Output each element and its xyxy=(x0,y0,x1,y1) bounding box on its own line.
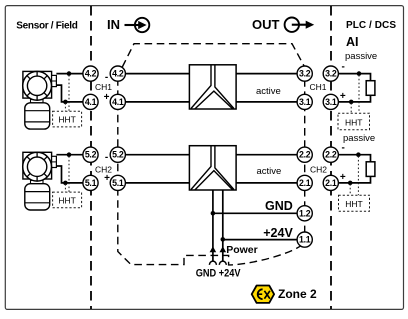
svg-text:CH1: CH1 xyxy=(310,82,327,92)
svg-text:Power: Power xyxy=(226,244,258,256)
Ex hexagon badge xyxy=(252,286,274,303)
svg-text:5.2: 5.2 xyxy=(85,150,97,160)
isolator block CH1 xyxy=(189,65,236,109)
wire 4.1 to isolator xyxy=(125,101,189,103)
HHT box CH1 left xyxy=(53,111,82,127)
wire 5.1 to isolator xyxy=(125,182,189,184)
IN arrow icon xyxy=(125,18,150,32)
svg-text:4.1: 4.1 xyxy=(85,97,97,107)
svg-text:CH1: CH1 xyxy=(95,82,112,92)
svg-text:AI: AI xyxy=(346,35,359,49)
HHT box CH2 left xyxy=(53,192,82,208)
svg-text:+: + xyxy=(340,91,346,102)
svg-text:+: + xyxy=(104,173,110,184)
svg-text:2.1: 2.1 xyxy=(299,178,311,188)
svg-text:HHT: HHT xyxy=(345,199,362,209)
HHT drop lines CH1 right (dotted) xyxy=(351,75,359,113)
field-side separator (dashed) xyxy=(90,6,92,309)
svg-text:3.1: 3.1 xyxy=(299,97,311,107)
svg-text:4.2: 4.2 xyxy=(112,69,124,79)
svg-text:-: - xyxy=(342,62,345,73)
terminal 3.2 outer xyxy=(323,66,338,81)
svg-text:+: + xyxy=(340,172,346,183)
terminal 1.1 xyxy=(297,232,312,247)
HHT drop lines CH2 right (dotted) xyxy=(350,156,358,195)
svg-text:5.1: 5.1 xyxy=(85,178,97,188)
svg-text:HHT: HHT xyxy=(58,115,75,125)
terminal 3.2 inner xyxy=(297,66,312,81)
wire +24V to 1.1 xyxy=(223,239,297,241)
wire 3.2 to load xyxy=(338,74,370,81)
wire T2 to 5.1 xyxy=(56,166,83,183)
wire 4.2 to isolator xyxy=(125,73,189,75)
power line +24V vertical xyxy=(222,190,224,261)
HHT box CH2 right xyxy=(339,195,370,211)
wire isolator to 2.2 xyxy=(236,154,297,156)
wire T1 to 4.2 xyxy=(56,73,83,75)
terminal 4.1 inner xyxy=(110,94,125,109)
terminal 2.2 inner xyxy=(297,147,312,162)
junction on 4.2 wire xyxy=(67,71,72,76)
terminal 3.1 inner xyxy=(297,94,312,109)
svg-text:HHT: HHT xyxy=(58,195,75,205)
svg-text:2.1: 2.1 xyxy=(325,178,337,188)
wire 2.1 to load xyxy=(338,176,370,183)
svg-text:2.2: 2.2 xyxy=(299,150,311,160)
terminal 4.2 outer xyxy=(83,66,98,81)
svg-text:HHT: HHT xyxy=(345,117,362,127)
junction on 5.2 wire xyxy=(67,152,72,157)
junction on 2.2 wire xyxy=(356,152,361,157)
wire T2 to 5.2 xyxy=(56,154,83,156)
transmitter T1 housing xyxy=(25,103,50,129)
terminal 5.2 outer xyxy=(83,147,98,162)
svg-text:GND: GND xyxy=(265,199,293,213)
power line GND vertical xyxy=(212,190,214,261)
svg-text:-: - xyxy=(342,143,345,154)
terminal 5.1 outer xyxy=(83,175,98,190)
junction on 4.1 wire xyxy=(63,100,68,105)
svg-text:4.2: 4.2 xyxy=(85,69,97,79)
junction on 3.1 wire xyxy=(349,100,354,105)
wire T1 to 4.1 xyxy=(56,85,83,102)
device boundary top (dashed) xyxy=(122,44,304,67)
terminal 2.1 outer xyxy=(323,175,338,190)
junction on 2.1 wire xyxy=(348,181,353,186)
svg-text:+24V: +24V xyxy=(263,226,293,240)
wire isolator to 3.1 xyxy=(236,101,297,103)
svg-text:1.2: 1.2 xyxy=(299,208,311,218)
svg-text:5.1: 5.1 xyxy=(112,178,124,188)
svg-text:Zone 2: Zone 2 xyxy=(278,287,317,301)
svg-text:2.2: 2.2 xyxy=(325,150,337,160)
OUT arrow icon xyxy=(285,18,315,32)
transmitter T1 ring xyxy=(23,71,52,100)
wire isolator to 2.1 xyxy=(236,182,297,184)
svg-text:3.1: 3.1 xyxy=(325,97,337,107)
svg-text:-: - xyxy=(105,72,108,83)
terminal 2.2 outer xyxy=(323,147,338,162)
svg-text:passive: passive xyxy=(345,51,377,62)
transmitter T2 housing xyxy=(25,184,50,210)
power arrow +24V xyxy=(220,246,227,252)
svg-text:-: - xyxy=(105,152,108,163)
PLC-side separator (dashed) xyxy=(330,6,332,309)
wire 5.2 to isolator xyxy=(125,154,189,156)
wire GND to 1.2 xyxy=(213,212,297,214)
svg-text:active: active xyxy=(256,86,281,97)
terminal 5.1 inner xyxy=(110,175,125,190)
svg-text:5.2: 5.2 xyxy=(112,150,124,160)
svg-text:PLC / DCS: PLC / DCS xyxy=(346,20,396,31)
load resistor CH2 xyxy=(366,162,375,177)
svg-text:3.2: 3.2 xyxy=(325,69,337,79)
plug socket arcs xyxy=(209,261,226,265)
terminal 2.1 inner xyxy=(297,175,312,190)
terminal 4.2 inner xyxy=(110,66,125,81)
junction +24V xyxy=(221,237,226,242)
transmitter T2 body xyxy=(23,152,57,179)
terminal 4.1 outer xyxy=(83,94,98,109)
wire 3.1 to load xyxy=(338,95,370,102)
svg-text:3.2: 3.2 xyxy=(299,69,311,79)
svg-text:passive: passive xyxy=(343,133,375,144)
device boundary left (dashed) xyxy=(118,66,300,265)
power arrow GND xyxy=(210,246,217,252)
device boundary right (dashed) xyxy=(304,67,306,240)
transmitter T2 neck xyxy=(31,180,44,183)
svg-text:OUT: OUT xyxy=(252,17,280,32)
terminal 1.2 xyxy=(297,206,312,221)
junction GND xyxy=(211,211,216,216)
terminal 3.1 outer xyxy=(323,94,338,109)
HHT drop lines CH2 left (dotted) xyxy=(65,156,69,192)
isolator block CH2 xyxy=(189,146,236,190)
terminal 5.2 inner xyxy=(110,147,125,162)
svg-text:IN: IN xyxy=(107,17,120,32)
load resistor CH1 xyxy=(366,81,375,96)
transmitter T1 neck xyxy=(31,100,44,103)
HHT box CH1 right xyxy=(338,113,370,130)
svg-text:GND +24V: GND +24V xyxy=(196,268,241,280)
svg-text:4.1: 4.1 xyxy=(112,97,124,107)
svg-text:+: + xyxy=(104,92,110,103)
svg-text:1.1: 1.1 xyxy=(299,235,311,245)
svg-text:CH2: CH2 xyxy=(310,165,327,175)
junction on 3.2 wire xyxy=(357,71,362,76)
wire 2.2 to load xyxy=(338,155,370,162)
wire isolator to 3.2 xyxy=(236,73,297,75)
transmitter T1 body xyxy=(23,71,57,98)
svg-text:Sensor / Field: Sensor / Field xyxy=(16,21,78,32)
transmitter T2 ring xyxy=(23,152,52,181)
junction on 5.1 wire xyxy=(63,181,68,186)
HHT drop lines CH1 left (dotted) xyxy=(65,75,69,112)
svg-text:active: active xyxy=(257,166,282,177)
